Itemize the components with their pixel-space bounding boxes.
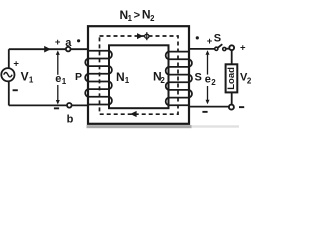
svg-text:+: + (207, 36, 213, 47)
svg-text:2: 2 (247, 77, 252, 86)
svg-text:1: 1 (29, 75, 34, 84)
svg-text:e: e (205, 73, 211, 85)
svg-text:S: S (214, 33, 221, 45)
svg-text:2: 2 (150, 14, 155, 23)
svg-text:N: N (116, 70, 125, 84)
svg-text:+: + (240, 43, 246, 54)
svg-text:1: 1 (128, 14, 133, 23)
svg-text:Load: Load (226, 67, 237, 90)
svg-text:2: 2 (160, 76, 165, 85)
svg-text:+: + (55, 37, 61, 48)
svg-text:S: S (195, 72, 202, 84)
svg-text:>: > (134, 9, 140, 21)
svg-text:P: P (75, 71, 82, 83)
svg-text:V: V (21, 69, 29, 83)
svg-text:b: b (67, 114, 74, 126)
svg-text:1: 1 (62, 77, 67, 86)
svg-text:1: 1 (125, 76, 130, 85)
svg-text:+: + (13, 59, 19, 70)
svg-text:e: e (55, 73, 61, 85)
svg-text:a: a (65, 37, 72, 49)
svg-text:2: 2 (211, 78, 216, 87)
